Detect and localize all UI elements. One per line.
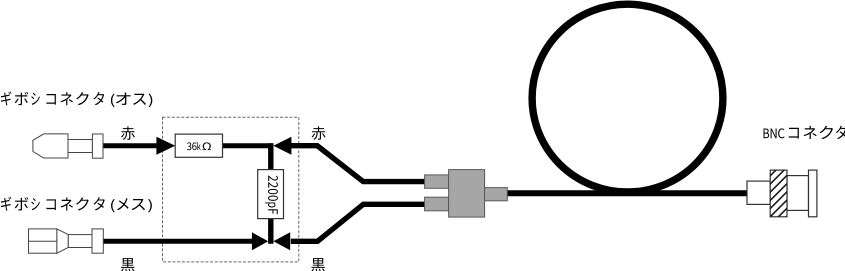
- wire: black lead from female giboshi connector: [103, 239, 252, 244]
- label: giboshi connector (male): [1, 91, 152, 107]
- value label 36kOhm: [187, 142, 211, 150]
- net label: red (left): [121, 126, 135, 140]
- net label: black (left): [121, 258, 135, 271]
- connector J2: BNC: [747, 181, 770, 204]
- arrowhead into node B (pointing left): [273, 232, 290, 250]
- label: giboshi connector (female): [1, 197, 152, 213]
- wire: red lead from male giboshi connector: [103, 143, 158, 148]
- wire: capacitor branch node A to node B (vertical): [268, 143, 273, 244]
- wire: resistor R1 output to node A: [223, 143, 274, 148]
- arrowhead into node B (pointing right): [252, 232, 268, 250]
- connector P2: giboshi female: [29, 229, 57, 253]
- arrowhead into resistor R1: [156, 137, 175, 155]
- coaxial cable from splitter to BNC connector: [506, 190, 748, 196]
- net label: red (right): [312, 126, 326, 140]
- wire: red lead from splitter to node A: [291, 146, 425, 182]
- arrowhead into node A (pointing left): [273, 137, 291, 155]
- label: BNC connector: [764, 128, 785, 138]
- cable coil loop: [532, 4, 723, 192]
- value label 2200pF (rotated): [265, 176, 278, 215]
- splitter / breakout adapter body: [425, 175, 449, 188]
- resistor R1 36kOhm: [175, 134, 222, 157]
- connector P1: giboshi male: [33, 134, 68, 158]
- net label: black (right): [311, 258, 325, 271]
- capacitor C1 2200pF: [258, 170, 284, 219]
- dashed enclosure around R1/C1 network: [163, 117, 299, 262]
- wire: black lead from splitter to node B: [291, 204, 425, 241]
